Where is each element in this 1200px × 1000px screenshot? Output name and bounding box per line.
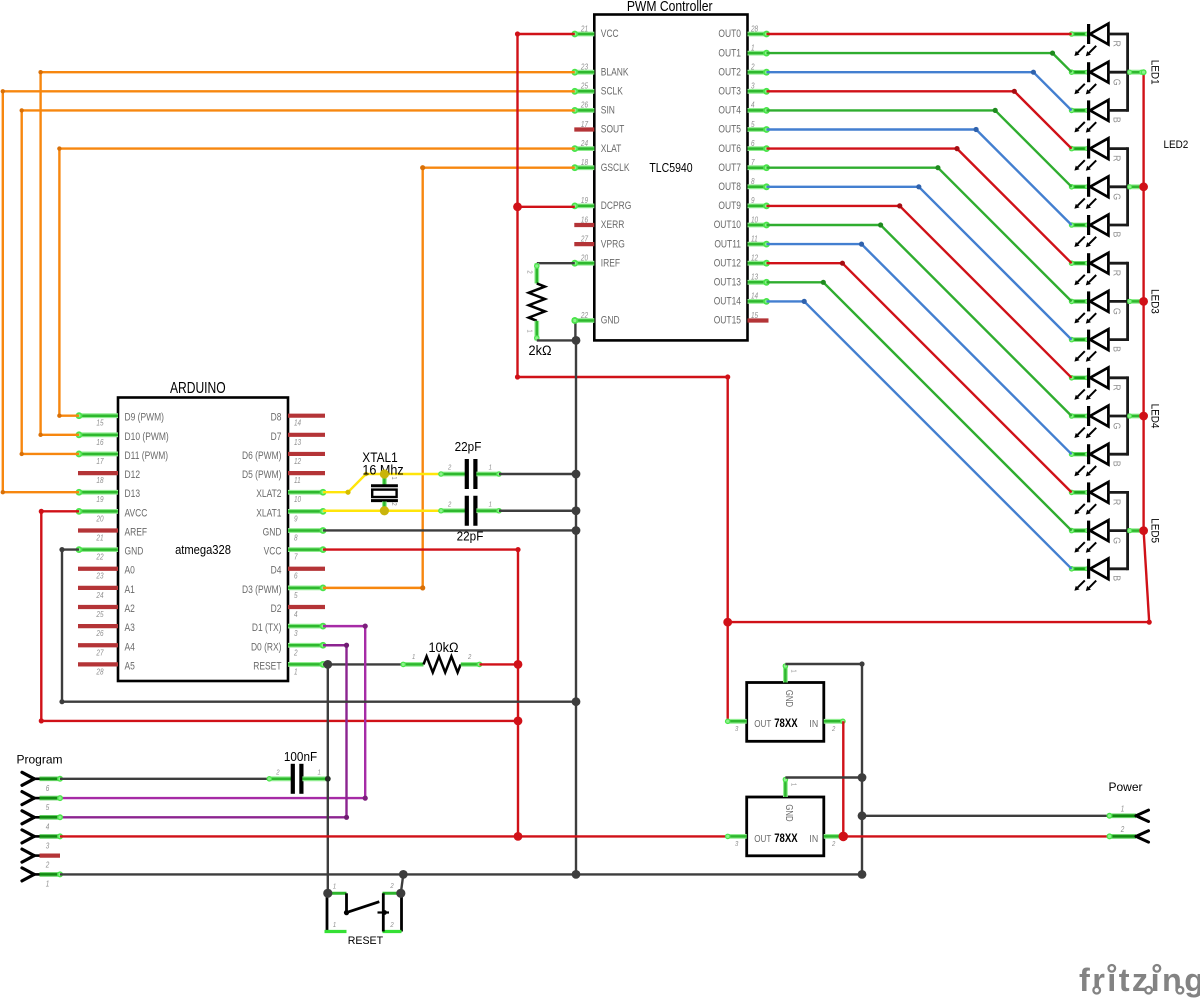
svg-text:1: 1 [412, 653, 416, 661]
U1 pin 20 IREF [575, 261, 595, 266]
LED D12 LED4B [1072, 452, 1088, 456]
U1 pin 28 OUT0 [748, 32, 767, 37]
svg-text:27: 27 [96, 648, 105, 658]
svg-text:A3: A3 [125, 622, 135, 634]
svg-text:18: 18 [96, 475, 103, 485]
wire RESET to R2 [323, 663, 403, 665]
svg-text:XLAT1: XLAT1 [256, 508, 281, 520]
U2 pin 7 VCC [288, 547, 323, 552]
svg-text:OUT7: OUT7 [718, 162, 741, 174]
svg-text:D6 (PWM): D6 (PWM) [242, 450, 281, 462]
svg-text:XERR: XERR [601, 219, 625, 231]
svg-text:OUT15: OUT15 [714, 315, 741, 327]
wire D1(TX) to Program5 [60, 626, 365, 798]
svg-text:14: 14 [294, 418, 301, 428]
wire OUT7 to LED [767, 168, 1072, 302]
svg-text:B: B [1110, 461, 1122, 467]
svg-text:4: 4 [294, 609, 298, 619]
wire C1 to GND [499, 473, 576, 475]
junction C3-RESET [325, 776, 331, 782]
svg-text:OUT0: OUT0 [718, 28, 741, 40]
svg-text:D3 (PWM): D3 (PWM) [242, 584, 281, 596]
U2 pin 1 RESET [288, 662, 323, 667]
wire cathode bracket LED group 4 [1126, 376, 1129, 455]
wire VR2 GND [785, 776, 862, 778]
svg-text:D2: D2 [271, 603, 282, 615]
U2 pin 5 D3 (PWM) [288, 585, 323, 590]
junction RESET node [323, 660, 332, 669]
IC U1 TLC5940 PWM controller body [594, 15, 747, 341]
LED D13 LED5R [1072, 490, 1088, 494]
svg-text:23: 23 [580, 62, 588, 72]
svg-text:19: 19 [96, 494, 103, 504]
node bus top pad [1141, 69, 1147, 75]
connector J1 Program pin 1 [22, 868, 34, 875]
wire LED group 4 to bus [1128, 414, 1144, 419]
wire OUT3 to LED [767, 91, 1072, 148]
svg-text:GND: GND [784, 690, 795, 707]
svg-text:7: 7 [294, 552, 298, 562]
U2 pin 12 D6 (PWM) [288, 452, 325, 456]
junction VR2 GND [858, 773, 867, 782]
svg-text:28: 28 [750, 24, 758, 34]
wire GND right vertical [861, 664, 863, 874]
svg-text:1: 1 [294, 667, 298, 677]
wire VR1 GND [785, 663, 862, 665]
junction bus LED4 [1139, 412, 1148, 421]
svg-text:26: 26 [96, 628, 105, 638]
svg-text:24: 24 [96, 590, 104, 600]
wire SIN(U1-26) to D11(U2-17) [22, 110, 575, 454]
wire LED anode bus vertical [1142, 72, 1144, 530]
svg-text:1: 1 [525, 329, 533, 333]
U2 pin 13 D7 [288, 433, 325, 437]
svg-text:1: 1 [333, 883, 337, 891]
svg-text:GND: GND [601, 315, 620, 327]
wire Power1 black [862, 815, 1110, 817]
U2 pin 21 AREF [78, 528, 118, 532]
connector J1 Program pin 2 [22, 849, 34, 856]
U2 pin 11 D5 (PWM) [288, 471, 325, 475]
svg-text:78XX: 78XX [774, 717, 798, 730]
svg-text:9: 9 [751, 195, 755, 205]
junction bus LED3 [1139, 297, 1148, 306]
svg-text:OUT12: OUT12 [714, 258, 741, 270]
U1 pin 15 OUT15 [748, 318, 769, 322]
wire XLAT2 to C1 (yellow) [323, 474, 441, 492]
resistor R1 2k [534, 263, 539, 283]
wire SCLK(U1-25) to D13(U2-19) [3, 91, 575, 492]
wire U1 GND down [574, 321, 576, 341]
wire BLANK(U1-23) to D10(U2-16) [41, 72, 575, 435]
svg-text:24: 24 [580, 138, 588, 148]
connector J1 Program pin 4 [22, 811, 34, 818]
wire OUT11 to LED [767, 244, 1072, 454]
wire cathode bracket LED group 2 [1126, 147, 1129, 226]
U2 pin 6 D4 [288, 567, 325, 571]
svg-text:3: 3 [735, 725, 739, 733]
junction bus LED2 [1139, 182, 1148, 191]
svg-text:8: 8 [294, 533, 298, 543]
wire OUT5 to LED [767, 130, 1072, 226]
svg-text:2: 2 [467, 653, 471, 661]
U1 pin 18 GSCLK [575, 165, 595, 170]
wire OUT9 to LED [767, 206, 1072, 378]
svg-text:B: B [1110, 117, 1122, 123]
svg-text:LED3: LED3 [1148, 289, 1161, 314]
svg-text:A5: A5 [125, 661, 135, 673]
connector J1 Program pin 3 [22, 830, 34, 837]
U1 pin 17 SOUT [574, 127, 594, 131]
junction IN-power [839, 832, 849, 842]
U2 pin 20 AVCC [79, 509, 118, 514]
svg-text:Power: Power [1109, 780, 1143, 794]
svg-text:2: 2 [525, 270, 533, 274]
LED D8 LED3G [1072, 299, 1088, 303]
wire Program3 VCC [60, 835, 728, 837]
svg-text:RESET: RESET [253, 661, 281, 673]
svg-text:28: 28 [96, 667, 104, 677]
U1 pin 22 GND [575, 318, 595, 323]
wire VR1 IN to VR2 IN [842, 721, 844, 836]
wire OUT2 to LED [767, 72, 1072, 110]
svg-text:D0 (RX): D0 (RX) [251, 641, 282, 653]
junction DCPRG [513, 202, 522, 211]
wire LED anode bus feed [728, 621, 1149, 623]
U1 pin 1 OUT1 [748, 51, 767, 56]
svg-text:R: R [1110, 499, 1122, 505]
svg-text:15: 15 [96, 418, 104, 428]
LED D1 LED1R [1072, 32, 1088, 36]
svg-text:B: B [1110, 575, 1122, 581]
svg-text:D9 (PWM): D9 (PWM) [125, 412, 164, 424]
svg-text:1: 1 [46, 879, 50, 889]
svg-text:D12: D12 [125, 469, 141, 481]
svg-text:14: 14 [751, 291, 758, 301]
U1 pin 23 BLANK [575, 70, 595, 75]
svg-text:OUT6: OUT6 [718, 143, 741, 155]
svg-text:21: 21 [96, 533, 104, 543]
svg-text:OUT2: OUT2 [718, 67, 741, 79]
svg-text:DCPRG: DCPRG [601, 200, 632, 212]
wire LED group 1 to bus [1128, 70, 1144, 75]
svg-text:OUT8: OUT8 [718, 181, 741, 193]
svg-text:1: 1 [489, 501, 493, 509]
svg-text:2: 2 [750, 62, 754, 72]
wire OUT4 to LED [767, 110, 1072, 186]
junction GND-Power1 [858, 811, 867, 820]
LED D5 LED2G [1072, 185, 1088, 189]
svg-text:12: 12 [751, 253, 758, 263]
wire OUT1 to LED [767, 53, 1072, 72]
IC U2 ARDUINO atmega328 body [118, 398, 288, 682]
svg-text:LED5: LED5 [1148, 518, 1161, 543]
U1 pin 4 OUT4 [748, 108, 767, 113]
svg-text:OUT: OUT [754, 718, 771, 729]
LED D11 LED4G [1072, 414, 1088, 418]
svg-text:SOUT: SOUT [601, 124, 625, 136]
svg-text:1: 1 [751, 43, 755, 53]
connector J1 Program pin 5 [22, 792, 34, 799]
svg-text:R: R [1110, 384, 1122, 390]
svg-text:6: 6 [294, 571, 298, 581]
svg-text:20: 20 [580, 253, 588, 263]
wire AVCC loop [41, 511, 518, 721]
wire OUT8 to LED [767, 187, 1072, 340]
svg-text:D1 (TX): D1 (TX) [252, 622, 282, 634]
svg-text:XLAT: XLAT [601, 143, 622, 155]
U2 pin 8 GND [288, 528, 323, 533]
junction XTAL1 pin1 (yellow) [380, 469, 389, 478]
capacitor C1 22pF [441, 472, 466, 477]
junction GND22 [572, 697, 581, 706]
U1 pin 21 VCC [575, 32, 595, 37]
svg-text:2: 2 [293, 648, 297, 658]
svg-text:2: 2 [45, 860, 49, 870]
wire VCC rail from U1 VCC down [518, 33, 575, 35]
svg-text:RESET: RESET [348, 935, 384, 947]
svg-text:GND: GND [125, 546, 144, 558]
U1 pin 7 OUT7 [748, 165, 767, 170]
svg-text:20: 20 [96, 514, 104, 524]
LED D9 LED3B [1072, 337, 1088, 341]
svg-text:1: 1 [489, 464, 493, 472]
capacitor C2 22pF [441, 508, 466, 513]
wire LED group 5 to bus [1128, 528, 1144, 533]
svg-text:2: 2 [447, 464, 451, 472]
svg-text:3: 3 [46, 841, 50, 851]
wire R2 to VCC rail [480, 663, 519, 665]
svg-text:1: 1 [1121, 804, 1125, 814]
svg-text:2: 2 [447, 501, 451, 509]
U2 pin 3 D1 (TX) [288, 624, 323, 629]
svg-text:GND: GND [784, 804, 795, 821]
svg-text:ARDUINO: ARDUINO [170, 378, 226, 396]
svg-text:OUT11: OUT11 [714, 238, 741, 250]
svg-text:A0: A0 [125, 565, 135, 577]
svg-text:16: 16 [96, 437, 104, 447]
U1 pin 3 OUT3 [748, 89, 767, 94]
U2 pin 10 XLAT2 [288, 490, 323, 495]
svg-text:OUT13: OUT13 [714, 277, 741, 289]
U1 pin 27 VPRG [574, 242, 594, 246]
svg-text:G: G [1110, 423, 1122, 430]
crystal XTAL1 16Mhz [382, 474, 387, 485]
svg-text:12: 12 [294, 456, 301, 466]
svg-text:19: 19 [581, 195, 588, 205]
svg-text:atmega328: atmega328 [175, 542, 231, 557]
U2 pin 4 D2 [288, 605, 325, 609]
svg-text:D13: D13 [125, 488, 141, 500]
wire GSCLK(U1-18) to D3(U2-5) [323, 168, 575, 588]
U1 pin 26 SIN [575, 108, 595, 113]
U1 pin 13 OUT13 [748, 280, 767, 285]
svg-text:8: 8 [751, 176, 755, 186]
capacitor C3 100nF [269, 776, 292, 781]
svg-text:BLANK: BLANK [601, 67, 629, 79]
svg-text:16: 16 [581, 215, 589, 225]
svg-text:IN: IN [809, 718, 818, 730]
svg-text:G: G [1110, 193, 1122, 200]
svg-text:11: 11 [751, 234, 758, 244]
svg-text:OUT9: OUT9 [718, 200, 741, 212]
wire RESET vertical [327, 664, 329, 893]
svg-text:2: 2 [390, 502, 398, 506]
wire cathode bracket LED group 3 [1126, 262, 1129, 341]
svg-text:2: 2 [831, 725, 835, 733]
wire C2 to GND [499, 510, 576, 512]
svg-text:2: 2 [831, 840, 835, 848]
svg-text:GND: GND [263, 527, 282, 539]
U2 pin 28 A5 [78, 662, 118, 666]
wire IREF to R1 [537, 262, 575, 264]
svg-text:1: 1 [789, 783, 797, 787]
connector J2 Power pin 2 [1110, 834, 1137, 839]
svg-text:1: 1 [333, 922, 337, 930]
svg-text:OUT1: OUT1 [718, 47, 741, 59]
svg-text:GSCLK: GSCLK [601, 162, 630, 174]
resistor R2 10k [403, 662, 423, 667]
wire DCPRG branch [518, 206, 575, 208]
U1 pin 2 OUT2 [748, 70, 767, 75]
LED D10 LED4R [1072, 376, 1088, 380]
LED D3 LED1B [1072, 108, 1088, 112]
svg-text:10: 10 [294, 494, 301, 504]
junction Program1-GNDmain [572, 870, 581, 879]
U2 pin 18 D12 [78, 471, 118, 475]
svg-text:SIN: SIN [601, 105, 615, 117]
U1 pin 11 OUT11 [748, 242, 767, 247]
connector J1 Program pin 6 [22, 772, 34, 779]
junction AVCC-VCC [514, 717, 523, 726]
svg-text:100nF: 100nF [284, 749, 318, 764]
svg-text:6: 6 [46, 783, 50, 793]
svg-text:D11 (PWM): D11 (PWM) [125, 450, 169, 462]
svg-text:27: 27 [580, 234, 589, 244]
U2 pin 19 D13 [79, 490, 118, 495]
svg-text:2: 2 [275, 769, 279, 777]
U2 pin 9 XLAT1 [288, 509, 323, 514]
U1 pin 16 XERR [574, 223, 594, 227]
svg-text:23: 23 [96, 571, 104, 581]
junction C1 GND [572, 470, 581, 479]
svg-text:SCLK: SCLK [601, 86, 624, 98]
U1 pin 19 DCPRG [575, 203, 595, 208]
U2 pin 26 A3 [78, 624, 118, 628]
svg-text:G: G [1110, 308, 1122, 315]
svg-text:OUT: OUT [754, 833, 771, 844]
svg-text:2: 2 [389, 922, 393, 930]
LED D6 LED2B [1072, 223, 1088, 227]
voltage regulator VR1 78XX [747, 683, 824, 742]
svg-text:26: 26 [580, 100, 589, 110]
svg-text:D8: D8 [271, 412, 282, 424]
svg-text:G: G [1110, 537, 1122, 544]
svg-text:OUT10: OUT10 [714, 219, 741, 231]
junction GND8 [572, 526, 581, 535]
svg-text:25: 25 [96, 609, 105, 619]
wire U2 GND22 loop [62, 550, 576, 702]
wire Program6 to C3 [60, 778, 269, 780]
LED D2 LED1G [1072, 70, 1088, 74]
wire OUT10 to LED [767, 225, 1072, 416]
LED D15 LED5B [1072, 567, 1088, 571]
svg-text:13: 13 [751, 272, 758, 282]
svg-text:3: 3 [751, 81, 755, 91]
wire RESET sw pin2 link [401, 874, 404, 893]
junction regulator-1 tap [723, 618, 732, 627]
U2 pin 14 D8 [288, 414, 325, 418]
svg-text:IN: IN [809, 833, 818, 845]
U2 pin 27 A4 [78, 643, 118, 647]
wire LED group 2 to bus [1128, 184, 1144, 189]
wire OUT14 to LED [767, 301, 1072, 568]
wire OUT13 to LED [767, 282, 1072, 530]
svg-text:15: 15 [751, 310, 759, 320]
svg-text:D7: D7 [271, 431, 282, 443]
svg-text:XLAT2: XLAT2 [256, 488, 281, 500]
svg-text:D10 (PWM): D10 (PWM) [125, 431, 169, 443]
svg-text:LED2: LED2 [1164, 138, 1189, 151]
svg-text:VPRG: VPRG [601, 238, 625, 250]
svg-text:22pF: 22pF [455, 439, 482, 454]
svg-text:4: 4 [751, 100, 755, 110]
svg-text:B: B [1110, 346, 1122, 352]
U1 pin 10 OUT10 [748, 223, 767, 228]
wire D0(RX) to Program4 [60, 645, 347, 817]
svg-text:A1: A1 [125, 584, 135, 596]
svg-text:5: 5 [46, 802, 50, 812]
svg-text:IREF: IREF [601, 258, 620, 270]
svg-text:3: 3 [294, 628, 298, 638]
U1 pin 25 SCLK [575, 89, 595, 94]
wire VCC rail to regulator [518, 376, 728, 378]
svg-text:OUT5: OUT5 [718, 124, 741, 136]
LED D14 LED5G [1072, 528, 1088, 532]
wire LED group 3 to bus [1128, 299, 1144, 304]
svg-text:R: R [1110, 270, 1122, 276]
connector J2 Power pin 1 [1110, 813, 1137, 818]
svg-text:5: 5 [294, 590, 298, 600]
U1 pin 6 OUT6 [748, 146, 767, 151]
wire U2 GND8 to GND node [323, 529, 576, 531]
U2 pin 15 D9 (PWM) [79, 413, 118, 418]
svg-text:9: 9 [294, 514, 298, 524]
wire OUT0 to LED1R [767, 33, 1072, 35]
junction U1 GND [572, 336, 581, 345]
svg-text:A2: A2 [125, 603, 135, 615]
U2 pin 25 A2 [78, 605, 118, 609]
U2 pin 2 D0 (RX) [288, 643, 323, 648]
svg-text:Program: Program [17, 753, 63, 767]
U1 pin 5 OUT5 [748, 127, 767, 132]
U2 pin 24 A1 [78, 586, 118, 590]
junction Program3-VCC [514, 832, 523, 841]
U2 pin 22 GND [79, 547, 118, 552]
svg-text:25: 25 [580, 81, 589, 91]
wire Power2 red [843, 835, 1109, 837]
svg-text:AREF: AREF [125, 527, 148, 539]
wire Program1 GND [60, 873, 862, 875]
wire XLAT1 to C2 (yellow) [323, 510, 441, 512]
U1 pin 24 XLAT [575, 146, 595, 151]
wire cathode bracket LED group 1 [1126, 33, 1129, 112]
LED D7 LED3R [1072, 261, 1088, 265]
svg-text:11: 11 [294, 475, 301, 485]
svg-text:17: 17 [581, 119, 589, 129]
wire cathode bracket LED group 5 [1126, 491, 1129, 570]
svg-text:LED4: LED4 [1148, 404, 1161, 429]
